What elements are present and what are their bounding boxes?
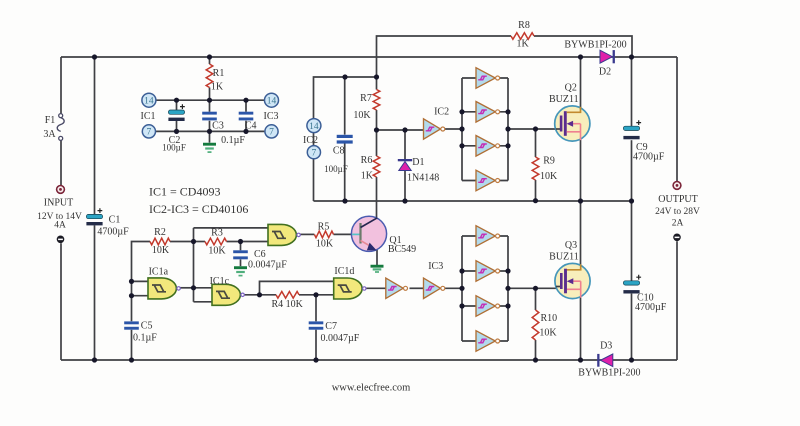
svg-text:7: 7 <box>269 128 274 138</box>
node IC2 pin 7 <box>307 146 320 159</box>
schmitt inverter IC2 bank 1 <box>476 68 500 89</box>
svg-text:R8: R8 <box>518 20 530 31</box>
svg-text:R9: R9 <box>543 156 555 167</box>
wire IC1a output <box>180 287 194 289</box>
output minus terminal <box>673 234 681 242</box>
schmitt inverter IC2 bank 4 <box>476 170 500 191</box>
junction dots bottom rail <box>92 357 634 362</box>
wire C9 top lead <box>631 57 633 126</box>
wire IC2 pin7 to mid rail <box>313 159 315 201</box>
svg-text:D1: D1 <box>412 157 424 168</box>
wire C2 leads <box>176 100 178 131</box>
schmitt inverter IC3 bank 2 <box>476 261 500 282</box>
schmitt inverter IC3 driver 1 <box>386 278 408 298</box>
svg-text:C3: C3 <box>212 120 224 131</box>
transistor Q1 BC549 <box>351 216 386 251</box>
svg-text:C7: C7 <box>325 321 337 332</box>
capacitor C9 <box>623 120 641 139</box>
wire IC1c top input <box>194 287 213 289</box>
fuse F1 <box>57 114 64 141</box>
svg-text:10K: 10K <box>316 238 334 249</box>
svg-text:14: 14 <box>144 96 154 106</box>
wire Q2 drain-source column <box>580 57 582 360</box>
svg-text:C8: C8 <box>333 146 345 157</box>
svg-text:C5: C5 <box>141 321 153 332</box>
resistor R8 <box>511 33 534 40</box>
wire R6 top lead <box>376 130 378 156</box>
wire R9 bottom lead <box>535 180 537 201</box>
svg-text:24V to 28V: 24V to 28V <box>655 207 700 217</box>
schmitt inverter IC3 driver 2 <box>424 278 445 298</box>
ground at Q1 emitter <box>371 266 384 272</box>
svg-text:OUTPUT: OUTPUT <box>658 194 697 205</box>
svg-text:IC2-IC3 = CD40106: IC2-IC3 = CD40106 <box>149 202 248 216</box>
diode D1 1N4148 <box>398 159 412 171</box>
svg-text:R5: R5 <box>318 221 330 232</box>
wire IC1-IC3 pin14 rail <box>156 99 264 101</box>
resistor R10 <box>532 310 539 340</box>
capacitor C6 <box>233 250 248 259</box>
junction dots oscillator nodes <box>129 239 319 298</box>
svg-text:4A: 4A <box>54 220 66 230</box>
wire D1 top lead <box>404 130 406 159</box>
wire IC1b output to R5 <box>300 233 314 235</box>
svg-text:IC1d: IC1d <box>334 266 354 277</box>
wire chain to IC3 bank <box>445 287 462 289</box>
wire C6 bottom lead <box>240 259 242 266</box>
junction dots IC2 bank input <box>459 109 464 148</box>
svg-text:1N4148: 1N4148 <box>407 173 439 184</box>
schmitt inverter IC2 bank 3 <box>476 136 500 157</box>
wire R8 feedback line left segment <box>377 36 512 90</box>
nand gate IC1a <box>148 267 180 299</box>
wire node130 to inverter input <box>377 129 425 131</box>
svg-text:14: 14 <box>267 96 277 106</box>
wire node to IC1b top input <box>194 227 269 229</box>
wire Q1 emitter to ground <box>376 249 378 266</box>
svg-text:4700µF: 4700µF <box>633 152 665 163</box>
wire C7 bottom lead <box>315 330 317 360</box>
junction dot Q3 gate node <box>533 286 538 291</box>
svg-text:IC1: IC1 <box>141 111 156 122</box>
nand gate IC1c <box>210 276 245 306</box>
wire C9 bottom lead <box>631 140 633 201</box>
wire right rail up to output minus terminal <box>676 241 678 360</box>
wire IC1a input stubs <box>132 281 149 295</box>
wire left rail above fuse <box>60 57 62 114</box>
node IC2 pin 14 <box>307 119 321 133</box>
capacitor C3 <box>202 112 217 121</box>
wire C1 branch upper <box>94 57 96 214</box>
schmitt inverter IC2 driver <box>424 119 445 139</box>
svg-text:0.1µF: 0.1µF <box>221 135 245 146</box>
resistor R5 <box>314 231 333 238</box>
svg-text:INPUT: INPUT <box>44 197 73 208</box>
capacitor C2 <box>168 104 184 121</box>
wire C10 bottom lead <box>631 294 633 360</box>
resistor R9 <box>532 157 539 180</box>
wire R1 bottom lead <box>209 88 211 101</box>
node IC1 pin 14 <box>142 93 156 107</box>
svg-text:2A: 2A <box>672 218 684 228</box>
svg-text:10K: 10K <box>208 246 226 257</box>
capacitor C5 <box>124 321 139 329</box>
schmitt inverter IC3 bank 4 <box>476 331 500 352</box>
svg-text:10K: 10K <box>152 245 170 256</box>
wire IC1c output <box>243 294 259 296</box>
svg-text:10K: 10K <box>540 171 558 182</box>
wire IC1d output <box>366 287 386 289</box>
svg-text:IC2: IC2 <box>434 106 449 117</box>
svg-text:R3: R3 <box>211 228 223 239</box>
resistor R2 <box>150 238 170 245</box>
svg-text:C1: C1 <box>109 214 121 225</box>
resistor R1 <box>206 64 213 88</box>
svg-text:R6: R6 <box>361 155 373 166</box>
wire R10 bottom lead <box>535 340 537 360</box>
ground at C3 <box>203 144 216 152</box>
svg-text:BYWB1PI-200: BYWB1PI-200 <box>578 368 640 379</box>
svg-text:C4: C4 <box>245 120 257 131</box>
svg-text:100µF: 100µF <box>162 142 186 152</box>
svg-text:14: 14 <box>309 122 319 132</box>
wire R5 to Q1 base <box>334 233 353 235</box>
wire R6 bottom to Q1 collector <box>376 177 378 220</box>
wire output right drop to plus terminal <box>676 57 678 181</box>
wire C10 top lead <box>631 201 633 281</box>
svg-text:IC1a: IC1a <box>149 267 169 278</box>
nand gate IC1b <box>268 224 300 245</box>
junction dots IC2 bank output <box>505 109 510 148</box>
junction dots IC3 bank input <box>459 268 464 308</box>
wire R2 right lead <box>170 241 194 243</box>
svg-text:IC3: IC3 <box>428 261 443 272</box>
svg-text:Q2: Q2 <box>565 82 577 93</box>
node IC1 pin 7 <box>142 125 155 138</box>
transistor Q2 BUZ11 mosfet <box>549 82 590 141</box>
output plus terminal <box>673 182 681 190</box>
wire mid rail (doubler midpoint) <box>314 200 632 202</box>
svg-text:BYWB1PI-200: BYWB1PI-200 <box>564 39 626 50</box>
junction dots mid rail <box>342 198 634 204</box>
svg-text:3A: 3A <box>43 129 56 140</box>
wire R2 left lead and C5 column <box>132 242 151 361</box>
svg-text:BUZ11: BUZ11 <box>549 252 579 263</box>
wire C3 leads <box>209 100 211 142</box>
svg-text:0.1µF: 0.1µF <box>133 332 157 343</box>
wire R8 feedback line right segment and drop <box>534 36 632 57</box>
svg-text:10K: 10K <box>539 327 557 338</box>
wire R3 left lead <box>194 241 206 243</box>
wire C4 leads <box>245 100 247 131</box>
capacitor C8 <box>337 135 353 144</box>
svg-text:D3: D3 <box>600 340 612 351</box>
wire fuse to input plus terminal <box>60 140 62 185</box>
svg-text:7: 7 <box>147 128 152 138</box>
svg-text:IC3: IC3 <box>264 111 279 122</box>
capacitor C7 <box>309 321 324 329</box>
wire R3 right lead to IC1b <box>227 241 269 243</box>
resistor R7 <box>373 90 380 111</box>
schmitt inverter IC3 bank 3 <box>476 296 500 317</box>
wire R4 right lead to IC1d <box>299 294 335 296</box>
svg-text:0.0047µF: 0.0047µF <box>248 260 287 271</box>
resistor R6 <box>373 156 380 177</box>
nand gate IC1d <box>334 266 366 299</box>
schmitt inverter IC2 bank 2 <box>476 102 500 123</box>
svg-text:1K: 1K <box>516 39 529 50</box>
diode D3 BYWB1PI-200 <box>597 354 613 367</box>
input plus terminal <box>57 186 65 194</box>
capacitor C4 <box>239 112 254 121</box>
svg-text:www.elecfree.com: www.elecfree.com <box>332 382 411 393</box>
wire input minus terminal down left rail <box>60 243 62 360</box>
resistor R3 <box>205 238 227 245</box>
wire IC2 bank input bus <box>462 78 476 181</box>
wire R4 left lead <box>260 294 277 296</box>
wire node to IC1c bottom input <box>194 301 213 303</box>
junction dots top rail <box>92 54 634 59</box>
wire D1 bottom lead <box>404 171 406 201</box>
svg-text:IC1 = CD4093: IC1 = CD4093 <box>149 184 220 198</box>
svg-text:100µF: 100µF <box>324 164 348 174</box>
wire R7 bottom to node <box>376 110 378 130</box>
wire IC2 pin14-pin7 gap <box>313 133 315 146</box>
wire R1 top lead <box>209 57 211 64</box>
wire IC1-IC3 pin7 rail <box>156 130 264 132</box>
wire IC1c out feedback to IC1d top input <box>260 281 335 294</box>
diode D2 BYWB1PI-200 <box>600 50 615 63</box>
svg-text:7: 7 <box>312 148 317 158</box>
capacitor C1 <box>86 208 102 225</box>
wire inverter chain link <box>410 287 424 289</box>
wire Q3 gate line <box>508 287 556 289</box>
junction dots R7-R6-D1 node <box>374 127 408 132</box>
svg-text:R4 10K: R4 10K <box>271 299 303 310</box>
svg-text:4700µF: 4700µF <box>635 302 667 313</box>
wire IC3 bank output bus <box>500 236 508 341</box>
svg-text:IC2: IC2 <box>303 135 318 146</box>
wire Q2 gate line <box>508 128 556 130</box>
transistor Q3 BUZ11 mosfet <box>549 240 590 299</box>
svg-text:R1: R1 <box>213 68 225 79</box>
svg-text:R10: R10 <box>540 313 557 324</box>
wire R9 top lead <box>535 129 537 157</box>
svg-text:1K: 1K <box>361 170 374 181</box>
ground at C6 <box>234 268 247 276</box>
svg-text:BC549: BC549 <box>388 244 416 255</box>
node IC3 pin 7 <box>265 125 278 138</box>
svg-text:IC1c: IC1c <box>210 276 230 287</box>
schmitt inverter IC3 bank 1 <box>476 226 500 247</box>
wire R10 top lead <box>535 288 537 310</box>
junction dots pin7 rail <box>174 129 249 134</box>
capacitor C10 <box>623 275 641 294</box>
wire IC2 bank output bus <box>500 78 508 181</box>
svg-text:C6: C6 <box>254 249 266 260</box>
svg-text:1K: 1K <box>211 81 224 92</box>
svg-text:10K: 10K <box>353 110 371 121</box>
wire top supply rail <box>61 56 677 58</box>
svg-text:D2: D2 <box>599 67 611 78</box>
wire C8 bottom lead <box>344 144 346 202</box>
junction dots pin14 rail <box>174 98 249 103</box>
wire C1 branch lower <box>94 225 96 360</box>
node IC3 pin 14 <box>265 93 279 107</box>
resistor R4 <box>276 292 299 299</box>
wire C7 top lead <box>315 295 317 322</box>
input minus terminal <box>57 236 65 244</box>
svg-text:0.0047µF: 0.0047µF <box>321 333 360 344</box>
wire oscillator node vertical <box>193 228 195 302</box>
svg-text:R2: R2 <box>154 227 166 238</box>
wire C6 top lead <box>240 242 242 251</box>
wire IC2 driver output <box>445 128 462 130</box>
wire IC2 pin14 drop from feedback node <box>314 77 378 119</box>
junction dot Q2 gate node <box>533 126 538 131</box>
svg-text:F1: F1 <box>45 115 56 126</box>
junction dots feedback node <box>342 74 379 79</box>
svg-text:Q3: Q3 <box>565 240 577 251</box>
svg-text:4700µF: 4700µF <box>97 226 129 237</box>
junction dots IC3 bank output <box>505 268 510 308</box>
wire C8 top lead <box>344 77 346 135</box>
svg-text:BUZ11: BUZ11 <box>549 94 579 105</box>
wire IC3 bank input bus <box>462 236 476 341</box>
svg-text:R7: R7 <box>360 93 372 104</box>
wire bottom ground rail <box>61 359 677 361</box>
